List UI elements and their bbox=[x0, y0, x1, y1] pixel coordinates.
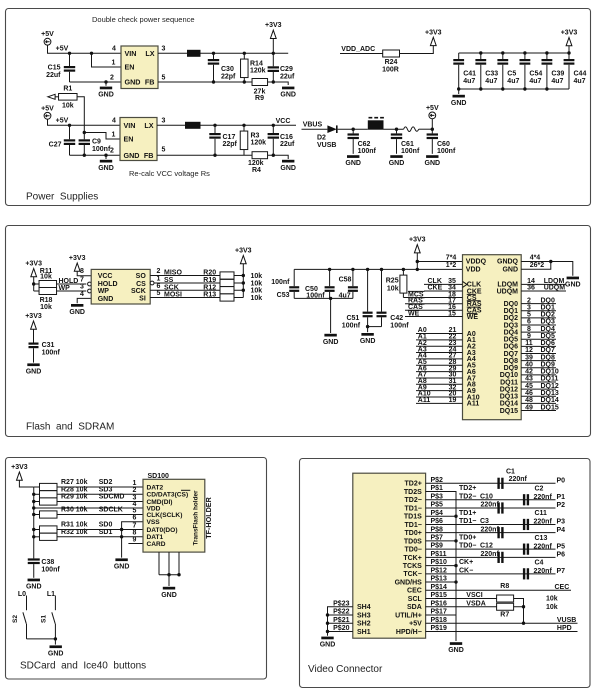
wire WE bbox=[405, 316, 463, 318]
resistor R32 bbox=[34, 536, 40, 538]
svg-text:Power Supplies: Power Supplies bbox=[26, 192, 98, 203]
wire CEC net bbox=[426, 589, 571, 591]
svg-text:9: 9 bbox=[527, 333, 531, 340]
svg-text:CARD: CARD bbox=[147, 541, 166, 548]
capacitor C54 bbox=[524, 53, 526, 59]
svg-text:1: 1 bbox=[112, 59, 116, 66]
svg-text:C17: C17 bbox=[223, 134, 236, 141]
svg-text:DAT0(DO): DAT0(DO) bbox=[147, 527, 178, 534]
svg-text:DQ2: DQ2 bbox=[504, 315, 519, 322]
svg-text:CEC: CEC bbox=[407, 588, 422, 595]
ground VSS bbox=[115, 558, 127, 561]
capacitor C17 bbox=[214, 125, 216, 133]
svg-text:VIN: VIN bbox=[125, 49, 137, 58]
svg-text:GND: GND bbox=[502, 266, 518, 273]
svg-text:GND: GND bbox=[280, 165, 296, 172]
svg-text:GND: GND bbox=[451, 100, 467, 107]
wire LX output row2 bbox=[157, 124, 185, 126]
svg-text:10k: 10k bbox=[387, 286, 399, 293]
svg-text:C42: C42 bbox=[390, 315, 403, 322]
wire MISO net bbox=[150, 275, 220, 277]
node R7 bus bbox=[522, 605, 525, 608]
wire WP net bbox=[57, 290, 87, 292]
svg-text:R8: R8 bbox=[500, 583, 509, 590]
svg-text:10k: 10k bbox=[546, 604, 558, 611]
svg-text:UDQM: UDQM bbox=[497, 288, 519, 295]
capacitor C50 bbox=[328, 268, 331, 271]
resistor R31 bbox=[34, 529, 40, 531]
node TF bottom2 bbox=[177, 573, 180, 576]
svg-text:220nf: 220nf bbox=[534, 543, 553, 550]
svg-text:+3V3: +3V3 bbox=[25, 313, 42, 320]
svg-text:SCK: SCK bbox=[164, 284, 179, 291]
resistor R30 bbox=[34, 514, 40, 516]
svg-text:TD1S: TD1S bbox=[404, 514, 422, 521]
ground decoupling group bbox=[330, 298, 332, 333]
svg-text:120k: 120k bbox=[248, 160, 264, 167]
svg-text:Video Connector: Video Connector bbox=[308, 664, 383, 675]
svg-text:TD2−: TD2− bbox=[404, 497, 421, 504]
svg-text:C31: C31 bbox=[42, 342, 55, 349]
capacitor C39 bbox=[546, 53, 548, 59]
wire TD2 return to P2 bbox=[426, 507, 556, 509]
resistor R3 bbox=[243, 125, 245, 131]
switch S1 bbox=[54, 596, 56, 611]
section frame Power Supplies bbox=[6, 9, 591, 206]
svg-text:C4: C4 bbox=[535, 560, 544, 567]
svg-text:SH1: SH1 bbox=[357, 629, 371, 636]
svg-text:22pf: 22pf bbox=[221, 73, 236, 80]
svg-text:220nf: 220nf bbox=[534, 568, 553, 575]
capacitor C44 bbox=[568, 53, 570, 59]
capacitor C11 bbox=[523, 519, 525, 530]
pin bubble WP bbox=[88, 289, 92, 293]
svg-text:C11: C11 bbox=[535, 510, 548, 517]
svg-text:DQ4: DQ4 bbox=[504, 329, 519, 336]
svg-text:R14: R14 bbox=[250, 60, 263, 67]
svg-text:2: 2 bbox=[110, 148, 114, 155]
svg-text:220nf: 220nf bbox=[481, 502, 500, 509]
capacitor C1 bbox=[497, 478, 499, 489]
ground flash bbox=[71, 304, 83, 307]
svg-text:GND: GND bbox=[26, 368, 42, 375]
wire SD2 net bbox=[57, 486, 143, 488]
svg-text:VSCI: VSCI bbox=[466, 592, 482, 599]
svg-text:C41: C41 bbox=[463, 71, 476, 78]
svg-text:C53: C53 bbox=[277, 292, 290, 299]
node R14 bbox=[243, 52, 246, 55]
svg-text:3: 3 bbox=[162, 118, 166, 125]
svg-text:DAT2: DAT2 bbox=[147, 484, 164, 491]
svg-text:C38: C38 bbox=[41, 559, 54, 566]
svg-text:+3V3: +3V3 bbox=[69, 255, 86, 262]
svg-text:46: 46 bbox=[525, 390, 533, 397]
svg-text:SD3: SD3 bbox=[99, 486, 113, 493]
svg-text:P7: P7 bbox=[557, 568, 566, 575]
power +3V3 row1 bbox=[270, 30, 276, 38]
resistor R11 bbox=[39, 281, 57, 288]
wire buttons common bbox=[27, 638, 56, 640]
svg-text:100nf: 100nf bbox=[92, 146, 111, 153]
svg-text:SS: SS bbox=[164, 277, 174, 284]
svg-text:DQ1: DQ1 bbox=[504, 308, 519, 315]
wire VDD direct bbox=[34, 507, 143, 509]
wire EN branch row2 bbox=[84, 133, 120, 140]
svg-text:Flash and SDRAM: Flash and SDRAM bbox=[26, 422, 114, 433]
svg-text:CS: CS bbox=[136, 281, 146, 288]
wire SDCMD net bbox=[57, 501, 143, 503]
capacitor C29 bbox=[272, 53, 274, 66]
svg-text:P4: P4 bbox=[557, 527, 566, 534]
clock input symbol bbox=[463, 281, 468, 287]
node VSS SD0 crossing bbox=[120, 528, 123, 531]
svg-text:DQ13: DQ13 bbox=[541, 390, 559, 397]
svg-text:UTIL/H+: UTIL/H+ bbox=[395, 612, 422, 619]
svg-text:R3: R3 bbox=[251, 132, 260, 139]
svg-text:SH2: SH2 bbox=[357, 621, 371, 628]
svg-text:SH4: SH4 bbox=[357, 604, 371, 611]
svg-text:100R: 100R bbox=[382, 66, 399, 73]
wire decoupling bottom rail bbox=[294, 297, 353, 299]
wire P$17 stub bbox=[426, 614, 456, 616]
svg-text:22uf: 22uf bbox=[280, 141, 295, 148]
node C9 bottom bbox=[83, 154, 86, 157]
wire TD0- row to P5 bbox=[426, 548, 556, 550]
svg-text:C54: C54 bbox=[529, 71, 542, 78]
svg-text:DQ5: DQ5 bbox=[504, 337, 519, 344]
capacitor C4 bbox=[523, 568, 525, 579]
wire UDQM bbox=[521, 290, 566, 292]
svg-text:TD1−: TD1− bbox=[404, 522, 421, 529]
section frame Video Connector bbox=[300, 459, 591, 688]
svg-text:TD0S: TD0S bbox=[404, 538, 422, 545]
node R11 left bbox=[32, 282, 35, 285]
svg-text:SCK: SCK bbox=[131, 288, 146, 295]
wire VSS to ground bbox=[122, 522, 143, 558]
svg-text:+5V: +5V bbox=[409, 621, 422, 628]
fuse F1 bbox=[404, 127, 419, 132]
svg-text:GNDQ: GNDQ bbox=[497, 259, 519, 266]
svg-text:HPD/H−: HPD/H− bbox=[396, 629, 422, 636]
svg-text:EN: EN bbox=[125, 63, 135, 72]
cap bank top nodes bbox=[479, 51, 482, 54]
capacitor C53 bbox=[293, 269, 295, 286]
svg-text:+5V: +5V bbox=[41, 31, 54, 38]
node shield TD1S bbox=[426, 515, 456, 517]
svg-text:WP: WP bbox=[59, 285, 71, 292]
svg-text:11: 11 bbox=[525, 340, 533, 347]
svg-text:GND: GND bbox=[360, 338, 376, 345]
capacitor C42 bbox=[380, 268, 383, 271]
svg-text:VDDQ: VDDQ bbox=[466, 259, 487, 266]
node C30 bottom bbox=[212, 80, 215, 83]
wire SH bus bbox=[328, 607, 353, 636]
wire HPD net bbox=[426, 630, 578, 632]
svg-text:SD2: SD2 bbox=[99, 479, 113, 486]
svg-text:GND: GND bbox=[125, 78, 141, 87]
capacitor C15 bbox=[69, 53, 71, 66]
power +3V3 SDRAM rail bbox=[414, 245, 420, 253]
wire SD0 net bbox=[57, 529, 143, 531]
node shield TCKS bbox=[426, 565, 456, 567]
ground cap bank bbox=[457, 87, 460, 90]
svg-text:GND: GND bbox=[48, 650, 64, 657]
svg-text:GND: GND bbox=[345, 160, 361, 167]
node C15 top bbox=[68, 52, 71, 55]
svg-text:26*2: 26*2 bbox=[530, 262, 545, 269]
capacitor C13 bbox=[523, 544, 525, 555]
svg-text:2: 2 bbox=[157, 268, 161, 275]
node C17 bottom bbox=[213, 154, 216, 157]
svg-text:8: 8 bbox=[527, 326, 531, 333]
ground row2 FB bbox=[282, 160, 294, 163]
svg-text:22uf: 22uf bbox=[46, 72, 61, 79]
wire LDQM bbox=[521, 283, 566, 285]
resistor R24 bbox=[383, 50, 400, 57]
svg-text:UDQM: UDQM bbox=[544, 285, 566, 292]
svg-text:GND: GND bbox=[26, 584, 42, 591]
ground regulator1 bbox=[105, 82, 107, 86]
svg-text:CKE: CKE bbox=[428, 285, 443, 292]
wire pullup bus right of R20-R13 bbox=[234, 264, 243, 298]
svg-text:TD0−: TD0− bbox=[459, 543, 476, 550]
capacitor C12 bbox=[497, 552, 499, 563]
svg-text:10k: 10k bbox=[251, 288, 263, 295]
svg-text:4u7: 4u7 bbox=[507, 78, 519, 85]
svg-text:R20: R20 bbox=[203, 270, 216, 277]
svg-text:WE: WE bbox=[467, 314, 479, 321]
node C17 bbox=[213, 124, 216, 127]
wire caps bottom to GND pin row2 bbox=[70, 154, 121, 156]
capacitor C62 bbox=[352, 129, 354, 133]
svg-text:GND: GND bbox=[323, 339, 339, 346]
svg-text:12: 12 bbox=[525, 347, 533, 354]
wire TD2- row to P1 bbox=[426, 499, 556, 501]
resistor R7 bbox=[497, 603, 514, 610]
svg-text:2: 2 bbox=[110, 74, 114, 81]
svg-text:DQ3: DQ3 bbox=[504, 322, 519, 329]
wire VSDA to R7 bbox=[426, 606, 497, 608]
svg-text:C16: C16 bbox=[280, 134, 293, 141]
svg-text:6: 6 bbox=[527, 319, 531, 326]
wire R7 to pullup bus bbox=[514, 606, 524, 608]
svg-text:GND: GND bbox=[161, 592, 177, 599]
wire CKE bbox=[424, 290, 463, 292]
svg-text:MOSI: MOSI bbox=[164, 292, 182, 299]
SDRAM address wires A0-A11 bbox=[416, 334, 463, 404]
ground C31 bbox=[27, 363, 39, 366]
pin bubble HOLD bbox=[88, 282, 92, 286]
svg-text:100nf: 100nf bbox=[42, 350, 61, 357]
SDRAM U4 body bbox=[463, 255, 522, 420]
node VSS SD1 crossing bbox=[120, 535, 123, 538]
capacitor C10 bbox=[497, 502, 499, 513]
wire TF bottom pins bbox=[159, 552, 179, 575]
wire VUSB net bbox=[426, 622, 578, 624]
node GND junction row1 bbox=[104, 80, 107, 83]
svg-text:4u7: 4u7 bbox=[529, 78, 541, 85]
node C30 bbox=[212, 52, 215, 55]
svg-text:L0: L0 bbox=[18, 591, 26, 598]
svg-text:DQ10: DQ10 bbox=[541, 369, 559, 376]
svg-text:DQ6: DQ6 bbox=[504, 344, 519, 351]
svg-text:P0: P0 bbox=[557, 478, 566, 485]
svg-text:5: 5 bbox=[157, 290, 161, 297]
svg-text:10k: 10k bbox=[40, 274, 52, 281]
svg-text:HPD: HPD bbox=[557, 625, 572, 632]
flash memory U3 bbox=[91, 269, 150, 304]
svg-text:C30: C30 bbox=[221, 66, 234, 73]
capacitor C30 bbox=[213, 53, 215, 59]
svg-text:7*4: 7*4 bbox=[446, 254, 457, 261]
svg-text:VBUS: VBUS bbox=[303, 122, 323, 129]
svg-text:R9: R9 bbox=[255, 95, 264, 102]
svg-text:100nf: 100nf bbox=[401, 148, 420, 155]
svg-text:R4: R4 bbox=[252, 167, 261, 174]
svg-text:GND: GND bbox=[320, 642, 336, 649]
svg-text:1: 1 bbox=[157, 276, 161, 283]
svg-text:+3V3: +3V3 bbox=[235, 248, 252, 255]
svg-text:SI: SI bbox=[139, 296, 146, 303]
svg-text:SDCard and Ice40 buttons: SDCard and Ice40 buttons bbox=[20, 661, 146, 672]
pin bubble CS bbox=[150, 281, 154, 285]
svg-text:R25: R25 bbox=[386, 278, 399, 285]
power +3V3 cap bank bbox=[566, 38, 572, 46]
svg-text:DQ9: DQ9 bbox=[541, 361, 556, 368]
resistor R4 bbox=[252, 152, 267, 159]
svg-text:GND: GND bbox=[448, 647, 464, 654]
svg-text:+3V3: +3V3 bbox=[425, 29, 442, 36]
node R20 right bbox=[242, 274, 245, 277]
svg-text:TD2S: TD2S bbox=[404, 489, 422, 496]
node bottom rail GND bbox=[329, 297, 332, 300]
node 3V3 row1 bbox=[272, 52, 275, 55]
svg-text:2: 2 bbox=[527, 297, 531, 304]
wire CAS bbox=[405, 309, 463, 311]
ground C61 bbox=[390, 155, 402, 158]
wire GNDQ GND to ground bbox=[521, 262, 573, 276]
svg-text:CK+: CK+ bbox=[459, 559, 473, 566]
svg-text:TCK+: TCK+ bbox=[403, 555, 421, 562]
svg-text:100nf: 100nf bbox=[342, 322, 361, 329]
svg-text:P2: P2 bbox=[557, 502, 566, 509]
svg-text:VSS: VSS bbox=[147, 519, 161, 526]
svg-text:10k: 10k bbox=[251, 295, 263, 302]
ground SH bus bbox=[321, 637, 333, 640]
svg-text:220nf: 220nf bbox=[481, 551, 500, 558]
power +3V3 R11 R18 pullups bbox=[31, 269, 37, 277]
svg-text:R31 10k: R31 10k bbox=[61, 522, 88, 529]
wire SDCLK net bbox=[57, 514, 143, 516]
inductor L1 row1 bbox=[187, 50, 201, 57]
capacitor C60 bbox=[431, 129, 433, 133]
svg-text:+5V: +5V bbox=[41, 105, 54, 112]
wire HOLD net bbox=[57, 283, 87, 285]
svg-text:EN: EN bbox=[124, 135, 134, 144]
node C62 bbox=[352, 128, 355, 131]
svg-text:GND: GND bbox=[98, 296, 114, 303]
svg-text:3: 3 bbox=[162, 46, 166, 53]
svg-text:10k: 10k bbox=[62, 103, 74, 110]
svg-text:TD1+: TD1+ bbox=[459, 510, 476, 517]
svg-text:VCC: VCC bbox=[276, 118, 291, 125]
node R19 right bbox=[242, 281, 245, 284]
power +5V source row2 bbox=[44, 112, 51, 119]
svg-text:DQ12: DQ12 bbox=[541, 383, 559, 390]
svg-text:3: 3 bbox=[80, 284, 84, 291]
svg-text:C29: C29 bbox=[280, 66, 293, 73]
svg-text:VUSB: VUSB bbox=[317, 142, 336, 149]
wire TD1- row to P3 bbox=[426, 523, 556, 525]
svg-text:LX: LX bbox=[145, 49, 154, 58]
node C16 bbox=[272, 124, 275, 127]
ground regulator2 bbox=[105, 155, 107, 159]
wire TD0 return to P6 bbox=[426, 556, 556, 558]
svg-text:WE: WE bbox=[408, 310, 420, 317]
svg-text:+3V3: +3V3 bbox=[265, 22, 282, 29]
svg-text:+5V: +5V bbox=[56, 118, 69, 125]
svg-text:TD0+: TD0+ bbox=[459, 535, 476, 542]
capacitor C61 bbox=[396, 129, 398, 133]
svg-text:48: 48 bbox=[525, 397, 533, 404]
svg-text:C15: C15 bbox=[48, 65, 61, 72]
power +5V VBUS bbox=[429, 112, 436, 119]
ground C51 C42 bbox=[367, 327, 369, 333]
resistor R27 bbox=[34, 486, 40, 488]
svg-text:DQ10: DQ10 bbox=[500, 372, 518, 379]
wire SD pullup bus bbox=[33, 487, 35, 558]
svg-text:C39: C39 bbox=[551, 71, 564, 78]
capacitor C16 bbox=[272, 125, 274, 133]
svg-text:GND: GND bbox=[280, 92, 296, 99]
svg-text:4u7: 4u7 bbox=[574, 78, 586, 85]
svg-text:C58: C58 bbox=[339, 277, 352, 284]
wire SD1 net bbox=[57, 536, 143, 538]
wire TD2+ row to P0 bbox=[426, 482, 556, 484]
svg-text:19: 19 bbox=[449, 397, 457, 404]
node R12 right bbox=[242, 289, 245, 292]
svg-text:SD1: SD1 bbox=[99, 529, 113, 536]
wire shield bus bbox=[426, 492, 456, 641]
svg-text:VCC: VCC bbox=[98, 273, 113, 280]
svg-text:1: 1 bbox=[112, 131, 116, 138]
svg-text:P5: P5 bbox=[557, 543, 566, 550]
svg-text:C2: C2 bbox=[535, 485, 544, 492]
svg-text:MISO: MISO bbox=[164, 270, 182, 277]
svg-text:LX: LX bbox=[144, 121, 153, 130]
svg-text:TD2+: TD2+ bbox=[404, 481, 421, 488]
svg-text:TD0−: TD0− bbox=[404, 547, 421, 554]
wire EN branch bbox=[92, 53, 122, 67]
svg-text:DQ14: DQ14 bbox=[541, 397, 559, 404]
svg-text:TD2−: TD2− bbox=[459, 493, 476, 500]
svg-text:5: 5 bbox=[133, 507, 137, 514]
svg-text:HOLD: HOLD bbox=[98, 281, 118, 288]
power +3V3 SD pullups bbox=[17, 472, 23, 480]
capacitor C51 bbox=[366, 268, 369, 271]
svg-text:DQ13: DQ13 bbox=[500, 394, 518, 401]
node TF bottom1 bbox=[167, 573, 170, 576]
capacitor C5 bbox=[502, 53, 504, 59]
svg-text:100nf: 100nf bbox=[390, 322, 409, 329]
node GND junction row2 bbox=[104, 154, 107, 157]
resistor R25 bbox=[402, 268, 405, 271]
wire C15 bottom to GND pin bbox=[70, 81, 122, 83]
wire SCK net bbox=[150, 289, 220, 291]
wire R24 to 3V3 bbox=[400, 46, 434, 54]
wire fuse to 5V node bbox=[419, 128, 433, 130]
svg-text:1*2: 1*2 bbox=[446, 262, 457, 269]
